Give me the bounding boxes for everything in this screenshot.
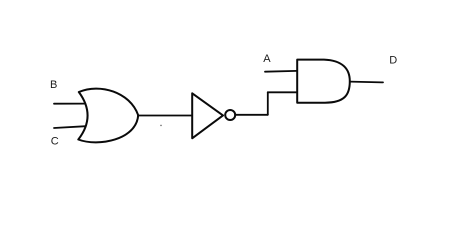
- wire step vertical: [267, 92, 269, 115]
- inverter U2 triangle: [192, 93, 223, 138]
- wire A input to AND gate: [265, 70, 297, 73]
- OR gate U1: [78, 89, 138, 143]
- svg-text:D: D: [389, 55, 397, 67]
- inverter U2 bubble: [225, 110, 235, 120]
- wire AND output to D: [350, 81, 383, 84]
- wire B input to OR gate: [54, 103, 86, 105]
- wire OR output to inverter: [138, 115, 192, 117]
- wire inverter output horizontal: [235, 114, 268, 116]
- svg-text:C: C: [51, 136, 59, 148]
- stray dot: [160, 125, 162, 127]
- svg-text:B: B: [50, 79, 57, 91]
- svg-text:A: A: [263, 53, 271, 65]
- AND gate U3: [297, 60, 350, 103]
- wire C input to OR gate: [54, 126, 86, 128]
- wire step horizontal to AND gate: [268, 91, 297, 93]
